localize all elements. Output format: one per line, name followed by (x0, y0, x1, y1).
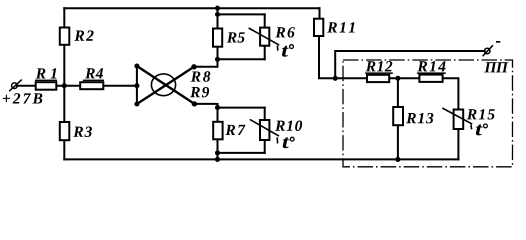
label R2 (74, 30, 93, 40)
resistor R12 (367, 75, 389, 82)
resistor R2 (60, 28, 70, 45)
wire R4 to bridge (103, 85, 137, 87)
thermistor R6 slash (249, 28, 280, 51)
label R5 (227, 32, 245, 42)
wire diagonal pointer upper-left to lower-right (137, 66, 195, 104)
dashed enclosure box PP unit (343, 60, 513, 167)
wire block rail to bottom rail (217, 153, 219, 160)
wire R6 top lead (264, 14, 266, 27)
wire R11 top lead (319, 8, 321, 19)
degree mark of R15 t (484, 124, 488, 128)
label R8 (191, 71, 211, 81)
underline R12 (365, 72, 393, 74)
resistor R4 (80, 82, 103, 89)
node top rail R5 tap (215, 6, 220, 11)
degree mark of R6 t (290, 45, 294, 49)
node R5-R6 bottom rail tap (215, 57, 220, 62)
label R11 (327, 22, 354, 32)
wire R1 to R4 (56, 85, 80, 87)
wire R7 bottom lead (217, 139, 219, 153)
thermistor R6 body (260, 28, 269, 46)
label R14 (417, 61, 445, 71)
label R1 (36, 68, 57, 78)
label +27V input (3, 93, 42, 103)
node bridge left bottom (134, 101, 139, 106)
thermistor R10 slash (250, 119, 279, 143)
wire R12 to R14 (389, 77, 419, 79)
wire R15 bottom lead (457, 129, 459, 159)
wire output branch up (335, 51, 485, 78)
node R7-R10 bottom rail tap (215, 150, 220, 155)
underline R14 (417, 72, 446, 74)
label minus sign at output (496, 41, 500, 43)
label t deg of R6 (282, 46, 289, 57)
wire input to R1 (17, 85, 36, 87)
resistor R1 (36, 82, 57, 90)
resistor R11 (314, 19, 323, 36)
wire bridge left vertical (136, 66, 138, 104)
node upper diagonal right end (191, 64, 196, 69)
wire R13 bottom lead (397, 125, 399, 159)
wire left vertical lower (63, 140, 65, 159)
degree mark of R10 t (290, 137, 294, 141)
resistor R7 (213, 122, 222, 140)
wire R13 top lead (397, 78, 399, 107)
resistor R13 (393, 107, 403, 125)
wire R7 top lead (217, 108, 219, 122)
node lower diagonal right end (192, 101, 197, 106)
label R7 (225, 125, 245, 135)
wire R5 top lead (217, 8, 219, 28)
wire lower diagonal end to R7-R10 rail (194, 104, 217, 108)
underline R1 (35, 80, 57, 82)
thermistor R10 body (260, 120, 269, 140)
wire left vertical middle (63, 45, 65, 122)
wire R11 bottom lead to bus (319, 36, 335, 78)
node R7-R10 top rail tap (215, 105, 220, 110)
node R1/R2/R3/R4 junction (62, 83, 67, 88)
wire top rail (64, 7, 319, 9)
node bridge left middle (134, 83, 139, 88)
wire upper diagonal end to R5-R6 rail (194, 59, 218, 67)
wire R5-R6 bottom rail (218, 58, 265, 60)
label R13 (406, 113, 433, 123)
node bridge left top (134, 63, 139, 68)
wire R10 bottom lead (264, 140, 266, 153)
node R12-R14-R13 junction (395, 76, 400, 81)
wire R7-R10 top rail (218, 107, 265, 109)
wire R7-R10 bottom rail (218, 152, 265, 154)
input terminal +27V (9, 80, 22, 92)
label R10 (275, 120, 302, 130)
label R12 (366, 61, 393, 71)
label R15 (467, 109, 495, 119)
resistor R5 (213, 29, 222, 47)
label R9 (190, 87, 209, 97)
label R3 (73, 127, 92, 137)
thermistor R15 slash (442, 108, 472, 129)
wire R6 bottom lead (264, 46, 266, 60)
meter circle of ratiometer bridge (151, 74, 175, 96)
label t deg of R10 (283, 137, 290, 148)
underline R4 (83, 80, 104, 82)
wire left vertical upper (63, 8, 65, 27)
wire diagonal pointer lower-left to upper-right (137, 67, 194, 104)
wire bottom rail (64, 158, 458, 160)
label PP unit (484, 62, 508, 72)
resistor R15 (454, 110, 464, 130)
node R13 bottom junction (395, 157, 400, 162)
output terminal minus (483, 45, 493, 56)
label R4 (85, 68, 103, 78)
wire R5 bottom lead (217, 47, 219, 60)
node inner rail R5 tap (215, 12, 220, 17)
node output branch junction (333, 76, 338, 81)
label t deg of R15 (476, 125, 483, 136)
resistor R14 (419, 75, 442, 82)
wire R14 to R15 (443, 78, 459, 109)
wire R10 top lead (264, 108, 266, 120)
node bottom rail tap (215, 157, 220, 162)
wire bus to R12 (335, 77, 367, 79)
label R6 (275, 27, 294, 37)
wire R5-R6 inner top rail (218, 13, 265, 15)
resistor R3 (60, 122, 70, 140)
